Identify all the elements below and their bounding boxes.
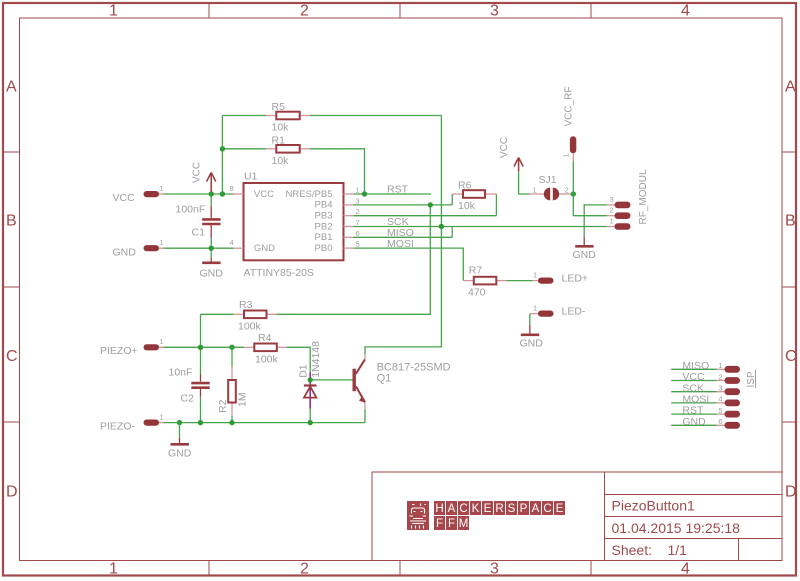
svg-text:2: 2 (610, 206, 614, 215)
svg-text:PIEZO-: PIEZO- (100, 421, 136, 433)
wire LED- pad down (529, 314, 531, 325)
capacitor C1 (176, 204, 221, 239)
supply symbol VCC (left) (207, 173, 216, 193)
wire MISO jog up (451, 227, 453, 238)
connector pad LED+ (533, 270, 589, 284)
svg-text:2: 2 (565, 185, 569, 194)
svg-text:LED+: LED+ (562, 272, 589, 284)
svg-text:10k: 10k (272, 155, 290, 167)
svg-text:SCK: SCK (682, 382, 704, 394)
svg-text:R4: R4 (258, 332, 272, 344)
svg-text:R7: R7 (469, 265, 483, 277)
svg-text:2: 2 (356, 207, 360, 216)
top ruler tick 3|4 (590, 3, 592, 18)
title block sheet cell divider (738, 539, 740, 561)
svg-text:LED-: LED- (562, 305, 586, 317)
U1 pin 4 stub (234, 247, 244, 249)
wire MISO row (354, 236, 453, 238)
ISP row MISO pin1 (671, 360, 740, 373)
svg-text:NRES/PB5: NRES/PB5 (286, 189, 333, 200)
junction dot PIEZO-/D1 (308, 420, 313, 425)
U1 pin 6 stub (344, 236, 354, 238)
wire R4 to D1/base node (287, 347, 310, 372)
svg-text:GND: GND (168, 448, 192, 460)
svg-text:100k: 100k (238, 321, 262, 333)
svg-text:C: C (543, 503, 551, 515)
resistor R5 (266, 101, 309, 134)
wire VCC pad to U1 pin8 (163, 193, 234, 195)
right ruler tick B|C (782, 286, 796, 288)
wire PB4 vertical to R3 (277, 205, 431, 314)
wire R5 long vertical to collector (365, 116, 441, 355)
svg-text:MOSI: MOSI (682, 394, 709, 406)
svg-text:VCC: VCC (113, 192, 136, 204)
wire R1 right to pin1 (310, 149, 365, 194)
svg-text:C1: C1 (192, 227, 206, 239)
svg-text:VCC: VCC (192, 162, 203, 183)
wire C1 bottom (210, 238, 212, 249)
svg-text:1: 1 (718, 361, 722, 370)
svg-text:C2: C2 (181, 393, 195, 405)
junction dot PIEZO-/C2 (198, 420, 203, 425)
net VCC: pad to pin 8 (163, 116, 441, 355)
title block row line 1 (605, 494, 783, 496)
svg-text:1: 1 (533, 303, 537, 312)
svg-text:PIEZO+: PIEZO+ (100, 345, 138, 357)
left ruler tick B|C (3, 286, 20, 288)
svg-text:A: A (6, 79, 17, 96)
connector RF_MODUL pad 1 (607, 216, 631, 229)
svg-text:K: K (472, 503, 480, 515)
diode D1 1N4148 (298, 341, 323, 409)
svg-text:F: F (436, 518, 443, 530)
svg-text:D: D (785, 484, 797, 501)
svg-text:E: E (484, 503, 492, 515)
title block outline (372, 472, 782, 561)
svg-text:GND: GND (200, 268, 224, 280)
ISP row MOSI pin4 (671, 394, 740, 407)
connector ISP (671, 360, 757, 429)
svg-text:4: 4 (718, 395, 722, 404)
svg-text:1N4148: 1N4148 (310, 341, 322, 378)
wire MOSI row to R7 (354, 248, 464, 281)
svg-text:R2: R2 (217, 399, 229, 413)
svg-text:ATTINY85-20S: ATTINY85-20S (244, 267, 314, 279)
transistor Q1 BC817-25SMD (353, 355, 451, 409)
wire R6 right jog down (495, 194, 497, 216)
ISP row GND pin6 (671, 416, 740, 429)
svg-text:01.04.2015 19:25:18: 01.04.2015 19:25:18 (612, 520, 741, 536)
svg-text:2: 2 (300, 561, 309, 578)
svg-text:Q1: Q1 (377, 373, 392, 385)
junction dot VCC/C1 (209, 191, 214, 196)
wire R5 row left (222, 115, 266, 117)
junction dot RST/R1 (362, 191, 367, 196)
svg-text:3: 3 (610, 195, 614, 204)
LOGO hackerspace ffm (407, 501, 565, 530)
svg-text:1: 1 (533, 270, 537, 279)
svg-text:P: P (520, 503, 528, 515)
svg-text:3: 3 (356, 196, 360, 205)
connector RF_MODUL pad 3 (607, 195, 631, 208)
svg-text:GND: GND (682, 416, 706, 428)
wire PIEZO+ vertical (R3 to C2) (200, 314, 202, 374)
bottom ruler tick 1|2 (208, 561, 210, 576)
junction dot PIEZO+/R3C2 (198, 345, 203, 350)
svg-text:5: 5 (356, 240, 360, 249)
junction dot PB4 vertical (428, 202, 433, 207)
svg-text:F: F (448, 518, 455, 530)
connector pad LED- (530, 303, 586, 317)
U1 pin 5 stub (344, 247, 354, 249)
svg-text:VCC: VCC (254, 189, 274, 200)
junction dot GND/C1 (209, 246, 214, 251)
junction dot PIEZO+/R2 (229, 345, 234, 350)
left ruler tick A|B (3, 151, 20, 153)
svg-text:Sheet:: Sheet: (612, 542, 652, 558)
svg-text:4: 4 (681, 3, 690, 20)
svg-text:1M: 1M (237, 392, 249, 407)
bottom ruler tick 2|3 (399, 561, 401, 576)
svg-text:R: R (495, 503, 503, 515)
svg-text:SJ1: SJ1 (539, 174, 557, 186)
svg-text:100k: 100k (255, 354, 279, 366)
ISP row SCK pin3 (671, 382, 740, 395)
svg-text:VCC_RF: VCC_RF (564, 86, 575, 126)
junction dot D1/base (308, 377, 313, 382)
top ruler tick 1|2 (208, 3, 210, 18)
svg-text:H: H (435, 503, 443, 515)
wire VCC arrow to SJ1 pin1 (519, 171, 530, 194)
svg-text:100nF: 100nF (176, 204, 206, 216)
U1 pin 1 stub (344, 193, 354, 195)
svg-text:1: 1 (356, 186, 360, 195)
svg-text:U1: U1 (244, 170, 258, 182)
svg-text:GND: GND (254, 243, 275, 254)
right ruler tick C|D (782, 421, 796, 423)
wire emitter to PIEZO- row (364, 409, 366, 423)
wire SCK row (354, 226, 453, 228)
logo letter blocks FFM (434, 516, 469, 530)
ISP row RST pin5 (671, 405, 740, 418)
ISP row VCC pin2 (671, 371, 740, 384)
svg-text:RST: RST (682, 405, 704, 417)
connector pad VCC (113, 184, 164, 204)
junction dot VCC/R5R1 (220, 191, 225, 196)
svg-text:1: 1 (610, 216, 614, 225)
ground symbol GND under C1 (200, 258, 224, 280)
svg-text:A: A (448, 503, 456, 515)
wire GND pad to U1 pin4 (163, 247, 234, 249)
svg-text:VCC: VCC (682, 371, 705, 383)
svg-text:PB0: PB0 (315, 243, 333, 254)
ground symbol GND near RF_MODUL (573, 237, 597, 261)
resistor R4 (244, 332, 286, 366)
bottom ruler tick 3|4 (590, 561, 592, 576)
svg-text:5: 5 (718, 406, 722, 415)
svg-text:GND: GND (113, 246, 137, 258)
wire D1 bottom to PIEZO- row (309, 409, 311, 423)
svg-text:1: 1 (160, 412, 164, 421)
connector pad VCC_RF (562, 86, 577, 161)
svg-text:470: 470 (468, 287, 486, 299)
svg-text:PB1: PB1 (315, 232, 333, 243)
svg-text:1: 1 (160, 238, 164, 247)
svg-text:2: 2 (300, 3, 309, 20)
svg-text:1: 1 (160, 337, 164, 346)
solder jumper SJ1 (530, 174, 572, 200)
label ISP underline (755, 370, 757, 389)
top ruler tick 2|3 (399, 3, 401, 18)
svg-text:BC817-25SMD: BC817-25SMD (377, 362, 451, 374)
wire R1 row left (222, 148, 266, 150)
svg-text:D1: D1 (298, 364, 310, 378)
junction dot R1/vertical (220, 146, 225, 151)
svg-text:PB4: PB4 (315, 200, 333, 211)
wire gnd stub below C1 (210, 248, 212, 257)
ground symbol GND under LED- (520, 325, 544, 350)
svg-text:1: 1 (160, 184, 164, 193)
svg-text:1: 1 (109, 561, 118, 578)
U1 pin 2 stub (344, 215, 354, 217)
wire VCC_RF pad down to SJ1 node (572, 162, 574, 195)
svg-text:MISO: MISO (682, 360, 709, 372)
svg-text:C: C (6, 348, 18, 365)
svg-text:8: 8 (230, 184, 234, 193)
title block row line 3 (605, 538, 783, 540)
svg-text:C: C (459, 503, 467, 515)
svg-text:B: B (785, 213, 796, 230)
svg-text:10k: 10k (458, 200, 476, 212)
svg-text:3: 3 (490, 561, 499, 578)
logo robot icon block (407, 501, 429, 530)
svg-text:PiezoButton1: PiezoButton1 (612, 498, 695, 514)
TITLEBLOCK (372, 472, 782, 561)
ground symbol GND under PIEZO- (168, 423, 192, 460)
logo letter blocks HACKERSPACE (434, 501, 565, 515)
svg-text:10nF: 10nF (169, 367, 193, 379)
svg-text:7: 7 (356, 218, 360, 227)
wire C2 bottom to PIEZO- row (200, 397, 202, 423)
left ruler tick C|D (3, 421, 20, 423)
junction dot PIEZO-/R2 (229, 420, 234, 425)
svg-text:B: B (6, 213, 17, 230)
connector RF_MODUL pad 2 (607, 206, 631, 219)
svg-text:4: 4 (230, 238, 234, 247)
title block divider logo|text (604, 472, 606, 561)
connector pad PIEZO- (100, 412, 164, 432)
svg-text:GND: GND (520, 338, 544, 350)
svg-text:1: 1 (533, 185, 537, 194)
resistor R6 (452, 180, 496, 213)
svg-text:1/1: 1/1 (668, 542, 688, 558)
svg-text:M: M (459, 518, 469, 530)
svg-text:A: A (785, 79, 796, 96)
junction dot SJ1/VCC_RF (571, 191, 576, 196)
wire R5 row right (310, 115, 442, 117)
connector pad PIEZO+ (100, 337, 164, 357)
U1 pin 7 stub (344, 226, 354, 228)
svg-text:R6: R6 (458, 180, 472, 192)
svg-text:6: 6 (718, 417, 722, 426)
wire PIEZO- row (164, 422, 366, 424)
svg-text:A: A (532, 503, 540, 515)
svg-text:R5: R5 (272, 101, 286, 113)
svg-text:10k: 10k (272, 122, 290, 134)
U1 pin 8 stub (234, 193, 244, 195)
svg-text:MOSI: MOSI (387, 238, 414, 250)
svg-text:E: E (556, 503, 564, 515)
svg-text:2: 2 (718, 372, 722, 381)
svg-text:4: 4 (681, 561, 690, 578)
connector pad GND (113, 238, 164, 258)
svg-text:1: 1 (109, 3, 118, 20)
wire base D1 to Q1 (310, 379, 352, 381)
wire RST net pin1 (354, 193, 432, 195)
svg-text:3: 3 (718, 384, 722, 393)
resistor R2 vertical (217, 347, 249, 422)
wire VCC rail vertical to R5/R1 (221, 116, 223, 195)
title block row line 2 (605, 516, 783, 518)
junction dot SCK/R5 vertical (439, 224, 444, 229)
U1 pin 3 stub (344, 204, 354, 206)
svg-text:PB3: PB3 (315, 211, 333, 222)
wire PB3 row (354, 215, 497, 217)
wire SCK long to RF pad1 (452, 226, 606, 228)
junction dot PIEZO-/GND (177, 420, 182, 425)
wire PB4 row (354, 204, 453, 206)
net wires from U1 right pins (277, 194, 607, 314)
supply symbol VCC (near SJ1) (514, 158, 523, 172)
op IC U1 ATTINY85-20S (230, 170, 360, 278)
wire RF pad3 to GND (584, 205, 606, 237)
svg-text:VCC: VCC (499, 137, 510, 158)
svg-text:1: 1 (562, 153, 571, 157)
resistor R3 (234, 299, 277, 333)
wire PIEZO+ row (164, 346, 245, 348)
capacitor C2 (169, 367, 210, 405)
wire R7 to LED+ pad (507, 280, 533, 282)
svg-text:6: 6 (356, 229, 360, 238)
svg-text:R1: R1 (272, 134, 286, 146)
right ruler tick A|B (782, 151, 796, 153)
resistor R1 (266, 134, 309, 167)
svg-text:R3: R3 (239, 299, 253, 311)
svg-text:3: 3 (490, 3, 499, 20)
wire SJ1 node down to RF pad2 (573, 194, 606, 216)
wire C1 top (210, 194, 212, 206)
resistor R7 (463, 265, 506, 299)
svg-text:PB2: PB2 (315, 221, 333, 232)
svg-text:C: C (785, 348, 797, 365)
wire PB4 jog up to R6 (451, 194, 453, 205)
svg-text:RST: RST (387, 184, 409, 196)
svg-text:S: S (508, 503, 516, 515)
svg-text:GND: GND (573, 249, 597, 261)
svg-text:D: D (6, 484, 18, 501)
wire R3 row left to PIEZO+ vertical (201, 313, 234, 315)
svg-text:RF_MODUL: RF_MODUL (638, 169, 649, 224)
